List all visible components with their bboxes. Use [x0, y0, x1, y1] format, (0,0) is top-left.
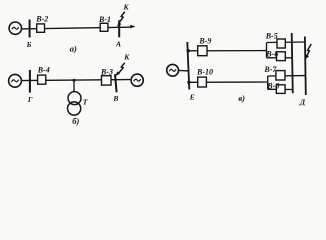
svg-text:Т: Т — [83, 97, 88, 106]
svg-text:В-3: В-3 — [100, 67, 113, 76]
svg-text:В-10: В-10 — [196, 68, 213, 77]
svg-text:В-1: В-1 — [98, 15, 111, 24]
svg-text:Г: Г — [27, 95, 33, 104]
svg-text:К: К — [123, 53, 130, 62]
svg-text:А: А — [115, 39, 121, 48]
svg-text:В-8: В-8 — [266, 82, 279, 91]
svg-text:В-9: В-9 — [198, 36, 211, 45]
svg-text:К: К — [123, 3, 130, 12]
svg-text:В-4: В-4 — [37, 65, 50, 74]
svg-text:Б: Б — [26, 40, 32, 49]
svg-text:В-5: В-5 — [265, 31, 278, 40]
svg-text:а): а) — [70, 43, 77, 53]
svg-text:б): б) — [72, 116, 79, 126]
svg-text:В-7: В-7 — [263, 65, 277, 74]
svg-text:В-2: В-2 — [35, 15, 48, 24]
svg-text:В-6: В-6 — [265, 50, 278, 59]
svg-text:Д: Д — [299, 97, 306, 106]
svg-text:В: В — [112, 94, 118, 103]
svg-text:в): в) — [238, 93, 245, 103]
svg-text:Е: Е — [189, 92, 195, 101]
